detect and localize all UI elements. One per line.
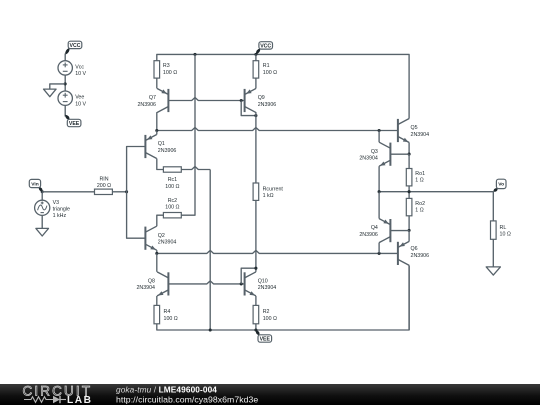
svg-text:Vin: Vin — [31, 181, 39, 187]
wire Rc1 to vertical B — [181, 167, 210, 170]
svg-text:2N3906: 2N3906 — [137, 102, 156, 108]
svg-text:Vcc: Vcc — [75, 64, 84, 70]
net label Vin — [29, 179, 42, 191]
wire Q7 Q9 base rail — [168, 98, 244, 101]
transistor Q2 — [145, 226, 156, 250]
wire Q10 base-collector tie — [241, 268, 256, 284]
transistor Q9 — [245, 89, 256, 113]
transistor Q10 — [245, 272, 256, 296]
transistor Q8 — [157, 272, 168, 296]
wire R3 to Q7 emitter — [156, 78, 158, 88]
svg-text:Q6: Q6 — [411, 246, 418, 252]
wire Q8 Q10 base rail — [168, 281, 244, 284]
CircuitLab logo schematic squiggle — [24, 396, 66, 403]
net label VEE (bottom rail) — [256, 330, 272, 342]
resistor Rc2 — [163, 213, 181, 218]
voltage source V2 Vee — [58, 91, 72, 105]
svg-text:Q9: Q9 — [258, 95, 265, 101]
label Ro1 1 Ω — [415, 171, 425, 184]
label Vee 10 V — [75, 95, 86, 108]
svg-text:VCC: VCC — [260, 43, 271, 49]
resistor R4 — [154, 305, 160, 323]
wire Q4 collector — [378, 243, 380, 254]
CircuitLab logo wordmark — [23, 383, 93, 405]
node input junction — [125, 190, 128, 193]
svg-text:100 Ω: 100 Ω — [165, 184, 179, 190]
svg-text:100 Ω: 100 Ω — [263, 70, 277, 76]
svg-text:triangle: triangle — [53, 206, 70, 212]
wire R1 top — [255, 54, 257, 60]
resistor R3 — [154, 61, 160, 78]
label RL 10 Ω — [500, 225, 511, 238]
label R2 100 Ω — [263, 309, 277, 322]
node bottom rail tap R2 — [254, 328, 257, 331]
node Ro2 bottom junction — [408, 229, 411, 232]
label Q3 2N3904 — [359, 149, 378, 162]
label Ro2 1 Ω — [415, 201, 425, 214]
svg-text:1 kHz: 1 kHz — [53, 213, 67, 219]
node Q9 collector tie — [254, 114, 257, 117]
node supply mid junction — [64, 82, 67, 85]
svg-text:2N3904: 2N3904 — [359, 156, 378, 162]
svg-text:R2: R2 — [263, 309, 270, 315]
voltage source V3 triangle — [35, 200, 50, 215]
svg-text:100 Ω: 100 Ω — [164, 316, 178, 322]
label Rcurrent 1 kΩ — [263, 186, 284, 199]
svg-text:Q4: Q4 — [371, 225, 378, 231]
node inner top rail left — [155, 129, 158, 132]
wire Q7 collector — [156, 112, 158, 130]
wire VCC to Vcc source — [64, 54, 66, 61]
svg-text:R1: R1 — [263, 63, 270, 69]
svg-text:Q7: Q7 — [149, 95, 156, 101]
wire Rc2 to Q2 collector — [157, 215, 164, 226]
resistor R1 — [253, 61, 259, 78]
node Q4 collector tap — [378, 252, 381, 255]
svg-text:2N3906: 2N3906 — [258, 102, 277, 108]
transistor Q6 — [398, 241, 409, 265]
svg-text:VEE: VEE — [260, 336, 271, 342]
svg-text:1 Ω: 1 Ω — [415, 208, 423, 214]
svg-text:VCC: VCC — [70, 43, 81, 49]
wire Vee to VEE label — [64, 105, 66, 116]
wire Q3 base — [390, 153, 409, 155]
wire Q6 collector down — [408, 265, 410, 330]
wire Q3 collector — [378, 131, 380, 143]
wire output rail — [379, 191, 493, 193]
wire VCC top rail — [157, 54, 409, 118]
wire vertical B — [209, 170, 211, 331]
label RIN 200 Ω — [97, 177, 111, 190]
svg-text:RIN: RIN — [99, 177, 108, 183]
wire Q4 base — [390, 230, 409, 232]
label Rc1 100 Ω — [165, 177, 179, 190]
svg-text:Q1: Q1 — [158, 141, 165, 147]
wire Q4 emitter — [378, 192, 380, 219]
node top rail tap A — [193, 53, 196, 56]
svg-text:200 Ω: 200 Ω — [97, 183, 111, 189]
svg-text:R3: R3 — [163, 63, 170, 69]
wire Vin to RIN — [42, 191, 94, 193]
resistor R2 — [253, 305, 259, 323]
wire inner top rail — [157, 128, 398, 131]
svg-text:2N3906: 2N3906 — [359, 232, 378, 238]
wire Q8 collector — [156, 253, 158, 271]
svg-text:LAB: LAB — [67, 395, 92, 405]
svg-text:http://circuitlab.com/cya98x6m: http://circuitlab.com/cya98x6m7kd3e — [116, 394, 258, 404]
resistor RIN — [95, 189, 113, 194]
svg-text:VEE: VEE — [69, 121, 80, 127]
wire center vertical A — [181, 54, 195, 215]
wire Q3 emitter down — [378, 166, 380, 192]
wire Vo to RL — [492, 192, 494, 221]
svg-text:10 Ω: 10 Ω — [500, 232, 511, 238]
transistor Q3 — [379, 142, 390, 166]
net label VCC (supply) — [65, 41, 82, 55]
wire to ground (supplies) — [50, 84, 65, 89]
resistor Rc1 — [163, 167, 181, 172]
wire Q5 emitter down — [408, 143, 410, 155]
label R4 100 Ω — [164, 309, 178, 322]
svg-text:Rc2: Rc2 — [168, 198, 177, 204]
svg-text:100 Ω: 100 Ω — [263, 316, 277, 322]
label Q7 2N3906 — [137, 95, 156, 108]
label Rc2 100 Ω — [165, 198, 179, 211]
wire Q9 collector down — [255, 112, 257, 183]
svg-text:Vee: Vee — [75, 95, 84, 101]
label Q8 2N3904 — [136, 279, 155, 292]
label R3 100 Ω — [163, 63, 177, 76]
node output Ro junction — [408, 190, 411, 193]
svg-text:V3: V3 — [53, 200, 60, 206]
wire Q1 collector to Rc1 — [157, 159, 164, 170]
svg-text:Q10: Q10 — [258, 279, 268, 285]
resistor Ro2 — [406, 198, 412, 215]
ground (supplies) — [44, 89, 57, 97]
wire Q9 base-collector tie — [241, 101, 256, 116]
wire Q10 emitter to R2 — [255, 296, 257, 305]
node Q10 collector tie — [254, 267, 257, 270]
node top rail tap R1 — [254, 53, 257, 56]
net label VCC (top rail) — [256, 42, 273, 55]
svg-text:Q5: Q5 — [411, 125, 418, 131]
svg-text:Q2: Q2 — [158, 233, 165, 239]
wire R2 bottom — [255, 324, 257, 330]
resistor Rcurrent — [253, 183, 259, 200]
svg-text:Q8: Q8 — [148, 279, 155, 285]
ground (RL) — [486, 267, 500, 275]
wire bottom rail — [157, 266, 409, 331]
svg-text:R4: R4 — [164, 309, 171, 315]
node bottom rail tap B — [209, 328, 212, 331]
wire Ro2 bottom — [408, 216, 410, 231]
wire input vertical — [127, 147, 146, 239]
transistor Q7 — [157, 89, 168, 113]
transistor Q4 — [379, 219, 390, 243]
label Q2 2N3904 — [158, 233, 177, 246]
transistor Q5 — [398, 119, 409, 143]
ground (V3) — [36, 228, 49, 236]
svg-text:Ro2: Ro2 — [415, 201, 425, 207]
label Vcc 10 V — [75, 64, 86, 77]
svg-text:1 kΩ: 1 kΩ — [263, 193, 274, 199]
svg-text:2N3904: 2N3904 — [136, 285, 155, 291]
svg-text:Q3: Q3 — [371, 149, 378, 155]
label Q10 2N3904 — [258, 279, 277, 292]
svg-text:2N3904: 2N3904 — [258, 285, 277, 291]
wire RIN to input node — [112, 191, 126, 193]
label R1 100 Ω — [263, 63, 277, 76]
svg-text:100 Ω: 100 Ω — [165, 205, 179, 211]
wire Ro1 top — [408, 154, 410, 168]
node Q5 emitter junction — [408, 153, 411, 156]
svg-text:10 V: 10 V — [75, 71, 86, 77]
wire R1 to Q9 emitter — [255, 78, 257, 88]
wire Rcurrent down — [255, 200, 257, 271]
label Q4 2N3906 — [359, 225, 378, 238]
svg-text:2N3906: 2N3906 — [158, 148, 177, 154]
label V3 triangle 1 kHz — [53, 200, 70, 219]
wire Vcc to Vee — [64, 75, 66, 91]
wire Q2 emitter — [156, 250, 158, 253]
svg-text:Rcurrent: Rcurrent — [263, 186, 284, 192]
svg-text:Rc1: Rc1 — [168, 177, 177, 183]
svg-text:2N3906: 2N3906 — [411, 253, 430, 259]
wire V3 to ground — [41, 215, 43, 228]
svg-text:RL: RL — [500, 225, 507, 231]
label Q5 2N3904 — [411, 125, 430, 138]
net label VEE (supply) — [65, 115, 81, 127]
svg-text:Ro1: Ro1 — [415, 171, 425, 177]
wire Ro1 bottom — [408, 186, 410, 192]
svg-text:2N3904: 2N3904 — [158, 240, 177, 246]
transistor Q1 — [145, 135, 156, 159]
node Q10 base tie — [240, 282, 243, 285]
node inner bottom rail left — [155, 252, 158, 255]
svg-text:1 Ω: 1 Ω — [415, 178, 423, 184]
footer title text — [116, 385, 258, 405]
wire RL to ground — [492, 239, 494, 267]
node Q3 collector tap — [378, 129, 381, 132]
svg-text:Vo: Vo — [498, 182, 504, 188]
voltage source V1 Vcc — [58, 61, 72, 75]
wire inner bottom rail — [157, 250, 398, 253]
node Q9 base tie — [240, 99, 243, 102]
wire Q8 emitter to R4 — [156, 296, 158, 305]
resistor Ro1 — [406, 169, 412, 186]
node output left junction — [378, 190, 381, 193]
label Q9 2N3906 — [258, 95, 277, 108]
svg-text:100 Ω: 100 Ω — [163, 70, 177, 76]
node Vin junction — [41, 190, 44, 193]
label Q6 2N3906 — [411, 246, 430, 259]
wire Ro2 top — [408, 192, 410, 199]
resistor RL — [491, 221, 497, 239]
label Q1 2N3906 — [158, 141, 177, 154]
net label Vo — [493, 179, 506, 192]
wire Q6 emitter — [408, 230, 410, 241]
wire Q1 emitter — [156, 131, 158, 135]
svg-text:10 V: 10 V — [75, 101, 86, 107]
svg-text:2N3904: 2N3904 — [411, 132, 430, 138]
wire Vin to V3 — [41, 192, 43, 201]
svg-text:goka-tmu / LME49600-004: goka-tmu / LME49600-004 — [116, 385, 217, 395]
